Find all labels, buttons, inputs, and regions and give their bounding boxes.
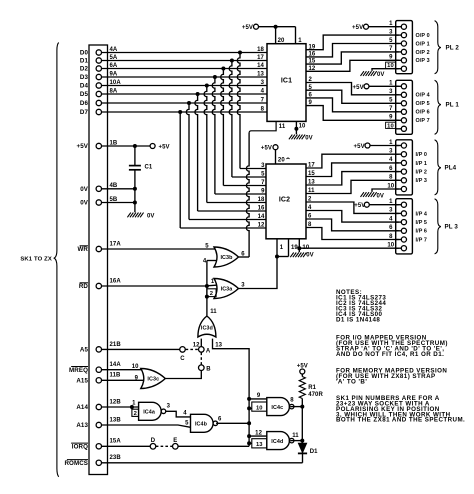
svg-text:11B: 11B bbox=[110, 373, 122, 379]
PL1 pin numbers bbox=[386, 81, 396, 130]
svg-text:PL 2: PL 2 bbox=[446, 44, 460, 51]
svg-text:9: 9 bbox=[261, 189, 265, 195]
svg-text:16: 16 bbox=[258, 206, 265, 212]
ground PL4 pin 10 bbox=[361, 189, 399, 199]
svg-text:3: 3 bbox=[167, 404, 171, 410]
brace PL 1 bbox=[435, 80, 460, 134]
capacitor C1 bbox=[129, 146, 153, 212]
svg-text:B: B bbox=[206, 366, 211, 372]
wire D6 (SK1 to IC1 and IC2) bbox=[80, 100, 267, 219]
wire D5 (SK1 8A to IC1 and IC2) bbox=[80, 88, 267, 211]
svg-text:IC3d: IC3d bbox=[201, 326, 213, 332]
svg-text:O/P 7: O/P 7 bbox=[416, 118, 430, 124]
wire D3 (SK1 9A to IC1 and IC2) bbox=[80, 71, 267, 194]
svg-text:11: 11 bbox=[279, 124, 286, 130]
svg-text:17A: 17A bbox=[110, 241, 122, 247]
wire D4 (SK1 10A to IC1 and IC2) bbox=[80, 80, 267, 203]
svg-text:7: 7 bbox=[261, 180, 265, 186]
svg-text:10: 10 bbox=[387, 243, 394, 249]
svg-text:3: 3 bbox=[241, 283, 245, 289]
node D bbox=[150, 438, 156, 449]
wire IC2 pin 2 to I/P 4 bbox=[306, 202, 399, 213]
wire IC2 pin 8 to I/P 7 bbox=[306, 228, 399, 240]
ground IC1 pin 10 bbox=[289, 121, 313, 141]
wire A15 11B to IC3c pin 9 bbox=[76, 373, 143, 385]
svg-text:IC4b: IC4b bbox=[195, 422, 208, 428]
IC U IC1 74LS273 bbox=[267, 44, 306, 122]
svg-text:A: A bbox=[206, 349, 211, 355]
svg-text:D: D bbox=[151, 438, 156, 444]
svg-text:I/P 3: I/P 3 bbox=[416, 178, 428, 184]
connector PL1 bbox=[396, 80, 413, 134]
connector SK1 edge connector bbox=[89, 45, 108, 475]
labels O/P 0-3 bbox=[416, 33, 430, 64]
wire IC4d output 11 bbox=[290, 439, 304, 443]
svg-text:C1: C1 bbox=[145, 164, 153, 170]
svg-text:0V: 0V bbox=[377, 72, 385, 78]
op-gate IC3b 74LS32 bbox=[203, 247, 245, 267]
IC1 +5V rail pins 20 and 1 bbox=[242, 24, 302, 44]
svg-text:I/P 1: I/P 1 bbox=[416, 161, 428, 167]
svg-text:4: 4 bbox=[183, 410, 187, 416]
IC1 right pin numbers bbox=[309, 44, 316, 106]
svg-text:O/P 5: O/P 5 bbox=[416, 101, 430, 107]
svg-text:470R: 470R bbox=[308, 392, 323, 398]
svg-text:6: 6 bbox=[241, 251, 245, 257]
svg-text:5: 5 bbox=[185, 421, 189, 427]
wire IC1 pin 9 to O/P 7 bbox=[306, 106, 399, 121]
node A bbox=[199, 347, 211, 355]
svg-text:12: 12 bbox=[255, 430, 262, 436]
svg-text:I/P 0: I/P 0 bbox=[416, 152, 428, 158]
svg-text:IC3b: IC3b bbox=[220, 255, 233, 261]
+5V terminal near C1 bbox=[150, 144, 170, 151]
svg-text:I/P 4: I/P 4 bbox=[416, 211, 428, 217]
svg-text:11: 11 bbox=[210, 309, 217, 315]
nand-gate IC4b 74LS00 bbox=[191, 414, 223, 432]
svg-text:16A: 16A bbox=[110, 278, 122, 284]
PL4 pin numbers bbox=[387, 140, 394, 190]
svg-text:O/P 1: O/P 1 bbox=[416, 41, 430, 47]
svg-text:+5V: +5V bbox=[77, 143, 89, 150]
IC4c pin 10 box bbox=[247, 402, 267, 411]
wire WR 17A to IC3b pin 5 bbox=[77, 241, 216, 253]
svg-text:21B: 21B bbox=[110, 342, 122, 348]
IC2 output enable pins 1 and 19 bbox=[275, 239, 298, 259]
wire IC4c output 8 bbox=[290, 405, 304, 409]
PL3 pin numbers bbox=[387, 199, 394, 249]
svg-text:SK1 TO ZX: SK1 TO ZX bbox=[20, 257, 52, 263]
wire RD 16A to IC3a pin 1 bbox=[79, 278, 216, 290]
svg-text:I/P 2: I/P 2 bbox=[416, 170, 428, 176]
strap A to B dashed bbox=[200, 353, 202, 365]
wire IC1 pin 12 to O/P 3 bbox=[306, 60, 399, 71]
notes text memory mapped version bbox=[336, 368, 447, 386]
nand-gate IC4a 74LS00 bbox=[139, 402, 171, 420]
wire R1 to D1 bbox=[301, 407, 303, 444]
svg-text:MREQ: MREQ bbox=[69, 367, 88, 374]
svg-text:8: 8 bbox=[290, 397, 294, 403]
svg-text:PL 3: PL 3 bbox=[445, 223, 459, 230]
svg-text:2: 2 bbox=[210, 291, 213, 297]
wire IC4b output to net bbox=[216, 421, 251, 425]
svg-text:4: 4 bbox=[389, 157, 393, 163]
svg-text:8: 8 bbox=[389, 175, 393, 181]
wire 0V 4B bbox=[80, 183, 137, 193]
svg-text:3: 3 bbox=[261, 163, 265, 169]
svg-text:IC4c: IC4c bbox=[271, 405, 283, 411]
wire IC1 pin 5 to O/P 5 bbox=[306, 90, 399, 103]
+5V terminal PL4 bbox=[354, 143, 399, 150]
wire 0V 5B bbox=[80, 197, 137, 207]
connector PL2 bbox=[396, 21, 413, 74]
svg-text:R1: R1 bbox=[308, 385, 316, 391]
svg-text:10: 10 bbox=[132, 364, 139, 370]
svg-text:IC2: IC2 bbox=[279, 197, 290, 204]
node C bbox=[180, 347, 186, 363]
nand-gate IC4d 74LS00 bbox=[267, 432, 300, 450]
svg-text:15A: 15A bbox=[110, 439, 122, 445]
svg-text:I/P 6: I/P 6 bbox=[416, 229, 428, 235]
svg-text:3: 3 bbox=[389, 89, 393, 95]
svg-text:1: 1 bbox=[298, 38, 302, 44]
svg-text:14A: 14A bbox=[110, 362, 122, 368]
svg-text:11: 11 bbox=[292, 433, 299, 439]
brace PL 2 bbox=[435, 21, 460, 74]
wire ROMCS 23B bbox=[64, 455, 302, 467]
svg-text:WR: WR bbox=[77, 246, 88, 253]
wire IC2 pin 6 to I/P 6 bbox=[306, 219, 399, 231]
notes text I/O mapped version bbox=[336, 335, 448, 358]
svg-text:2: 2 bbox=[134, 411, 137, 417]
wire A5 21B to strap C bbox=[80, 342, 180, 354]
svg-text:5: 5 bbox=[205, 244, 209, 250]
svg-text:IC3c: IC3c bbox=[147, 377, 159, 383]
svg-text:5: 5 bbox=[389, 38, 393, 44]
svg-text:9: 9 bbox=[389, 55, 393, 61]
svg-text:13: 13 bbox=[256, 442, 263, 448]
wire A13 13B to IC4b pin 5 bbox=[76, 417, 190, 429]
svg-text:D1: D1 bbox=[310, 449, 318, 455]
svg-text:0V: 0V bbox=[306, 252, 314, 258]
svg-text:0V: 0V bbox=[80, 186, 89, 193]
svg-text:13: 13 bbox=[257, 71, 264, 77]
svg-text:IORQ: IORQ bbox=[72, 444, 88, 451]
wire IC2 pin 4 to I/P 5 bbox=[306, 211, 399, 223]
svg-text:14: 14 bbox=[258, 214, 265, 220]
node E bbox=[173, 438, 179, 449]
svg-text:D7: D7 bbox=[80, 109, 89, 116]
svg-text:1: 1 bbox=[132, 401, 136, 407]
brace PL 3 bbox=[435, 199, 459, 254]
svg-text:1: 1 bbox=[280, 245, 284, 251]
svg-text:20: 20 bbox=[278, 38, 285, 44]
wire D0 (SK1 4A to IC1 and IC2) bbox=[80, 47, 267, 169]
svg-text:12B: 12B bbox=[110, 399, 122, 405]
svg-text:D0: D0 bbox=[80, 50, 89, 57]
svg-text:8: 8 bbox=[261, 106, 265, 112]
wire IC2 pin 11 to I/P 3 bbox=[306, 180, 399, 193]
svg-text:3: 3 bbox=[389, 208, 393, 214]
svg-text:D1 IS 1N4148: D1 IS 1N4148 bbox=[336, 316, 380, 323]
ground PL2 pin 10 bbox=[361, 69, 399, 79]
svg-text:14: 14 bbox=[257, 63, 264, 69]
ground IC2 pin 10 bbox=[290, 239, 398, 259]
wire strap E to IC4 net bbox=[178, 445, 249, 447]
svg-text:3: 3 bbox=[261, 80, 265, 86]
notes text SK1 pin numbers bbox=[336, 395, 465, 424]
svg-text:RD: RD bbox=[79, 283, 89, 290]
svg-text:9: 9 bbox=[135, 376, 139, 382]
svg-text:13B: 13B bbox=[110, 417, 122, 423]
wire A14 12B to IC4a bbox=[76, 399, 138, 411]
svg-text:18: 18 bbox=[257, 47, 264, 53]
svg-text:0V: 0V bbox=[147, 214, 155, 220]
svg-text:+5V: +5V bbox=[242, 25, 253, 31]
svg-text:A15: A15 bbox=[76, 378, 88, 385]
svg-text:+5V: +5V bbox=[297, 364, 308, 370]
labels I/P 4-7 bbox=[416, 211, 428, 243]
strap D to E dashed bbox=[156, 445, 173, 447]
IC2 right pin numbers bbox=[308, 163, 315, 229]
wire IC1 pin 19 to O/P 0 bbox=[306, 35, 399, 50]
wire IC1 pin 2 to O/P 4 bbox=[306, 83, 399, 95]
wire IC2 pin 15 to I/P 1 bbox=[306, 163, 399, 177]
IC2 +5V pin 20 bbox=[261, 145, 290, 164]
IC U IC2 74LS244 bbox=[266, 164, 306, 239]
svg-text:E: E bbox=[173, 438, 177, 444]
wire IC3d pin 12 to strap A bbox=[193, 339, 202, 349]
op-gate IC3d 74LS32 bbox=[198, 309, 217, 337]
svg-text:0V: 0V bbox=[80, 200, 89, 207]
svg-text:A13: A13 bbox=[76, 422, 88, 429]
svg-text:20: 20 bbox=[278, 157, 285, 163]
+5V terminal PL3 bbox=[354, 202, 398, 209]
op-gate IC3c 74LS32 bbox=[141, 369, 166, 389]
svg-text:+5V: +5V bbox=[354, 144, 365, 150]
connector PL4 bbox=[396, 140, 413, 195]
svg-text:10: 10 bbox=[387, 123, 394, 129]
wire +5V 1B bbox=[77, 140, 151, 150]
svg-text:9: 9 bbox=[257, 393, 261, 399]
PL2 pin numbers bbox=[386, 21, 396, 69]
svg-text:4: 4 bbox=[389, 216, 393, 222]
labels I/P 0-3 bbox=[416, 152, 428, 184]
svg-text:A5: A5 bbox=[80, 347, 89, 354]
brace PL4 bbox=[435, 140, 457, 195]
svg-text:+5V: +5V bbox=[352, 25, 363, 31]
svg-text:BOTH THE ZX81 AND THE SPECTRUM: BOTH THE ZX81 AND THE SPECTRUM. bbox=[336, 417, 465, 424]
svg-text:D4: D4 bbox=[80, 83, 89, 90]
wire IC4c pin 9 bbox=[247, 393, 267, 401]
node B bbox=[199, 365, 212, 372]
wire IC1 pin 16 to O/P 1 bbox=[306, 44, 399, 57]
wire D2 (SK1 6A to IC1 and IC2) bbox=[80, 63, 267, 186]
IC2 left pin numbers bbox=[258, 163, 265, 229]
svg-text:I/P 5: I/P 5 bbox=[416, 220, 428, 226]
svg-text:+5V: +5V bbox=[261, 146, 272, 152]
svg-text:+5V: +5V bbox=[159, 145, 170, 151]
label SK1 TO ZX with brace bbox=[20, 43, 58, 477]
notes text parts list bbox=[336, 289, 386, 323]
svg-text:D3: D3 bbox=[80, 74, 89, 81]
svg-text:5: 5 bbox=[261, 172, 265, 178]
wire IORQ 15A to strap D bbox=[71, 439, 150, 451]
connector PL3 bbox=[396, 199, 413, 254]
+5V terminal PL2 bbox=[352, 24, 399, 31]
svg-text:C: C bbox=[180, 356, 185, 362]
svg-text:IC1: IC1 bbox=[281, 77, 292, 84]
svg-text:13: 13 bbox=[215, 342, 222, 348]
svg-text:IC4d: IC4d bbox=[271, 439, 283, 445]
svg-text:0V: 0V bbox=[305, 136, 313, 142]
resistor R1 470R bbox=[297, 364, 324, 407]
svg-text:3: 3 bbox=[389, 149, 393, 155]
svg-text:D5: D5 bbox=[80, 91, 89, 98]
IC1 pin 11 clock wire to IC3b output bbox=[239, 121, 286, 257]
wire D7 (SK1 to IC1 and IC2) bbox=[80, 109, 267, 228]
svg-text:PL4: PL4 bbox=[445, 165, 457, 172]
svg-text:D2: D2 bbox=[80, 66, 89, 73]
svg-text:0V: 0V bbox=[377, 193, 385, 199]
wire IC4a output to IC4b pin 4 bbox=[166, 410, 191, 417]
svg-text:5: 5 bbox=[389, 98, 393, 104]
svg-text:3: 3 bbox=[389, 29, 393, 35]
wire IC3c output to strap B bbox=[166, 371, 202, 379]
svg-text:6: 6 bbox=[389, 225, 393, 231]
wire IC1 pin 6 to O/P 6 bbox=[306, 98, 399, 112]
diode D1 1N4148 bbox=[298, 443, 318, 463]
svg-text:10: 10 bbox=[256, 405, 263, 411]
svg-text:IC4a: IC4a bbox=[143, 410, 156, 416]
svg-text:4: 4 bbox=[261, 88, 265, 94]
svg-text:O/P 0: O/P 0 bbox=[416, 33, 430, 39]
svg-text:I/P 7: I/P 7 bbox=[416, 237, 428, 243]
svg-text:18: 18 bbox=[258, 197, 265, 203]
svg-text:7: 7 bbox=[389, 106, 393, 112]
svg-text:AND DO NOT FIT IC4, R1 OR D1.: AND DO NOT FIT IC4, R1 OR D1. bbox=[336, 351, 444, 358]
labels O/P 4-7 bbox=[416, 93, 430, 125]
IC1 left pin numbers bbox=[257, 47, 264, 113]
svg-text:IC3a: IC3a bbox=[221, 287, 234, 293]
nand-gate IC4c 74LS00 bbox=[267, 397, 295, 415]
+5V terminal PL1 bbox=[353, 84, 399, 91]
svg-text:O/P 3: O/P 3 bbox=[416, 58, 430, 64]
svg-text:6: 6 bbox=[389, 166, 393, 172]
svg-text:8: 8 bbox=[389, 234, 393, 240]
svg-text:12: 12 bbox=[258, 223, 265, 229]
svg-text:'A' TO 'B': 'A' TO 'B' bbox=[336, 379, 367, 386]
svg-text:O/P 4: O/P 4 bbox=[416, 93, 430, 99]
wire MREQ 14A to IC3c pin 10 bbox=[69, 362, 143, 374]
svg-text:7: 7 bbox=[261, 97, 265, 103]
wire IC3b pin 4 to node bbox=[206, 261, 208, 316]
IC3a pin 2 box bbox=[205, 289, 216, 299]
wire IC1 pin 15 to O/P 2 bbox=[306, 52, 399, 64]
op-gate IC3a 74LS32 bbox=[214, 279, 245, 299]
svg-text:23B: 23B bbox=[110, 455, 122, 461]
svg-text:+5V: +5V bbox=[353, 85, 364, 91]
wire IC3a output 3 to IC2 enable bbox=[239, 257, 277, 289]
wire D1 (SK1 5A to IC1 and IC2) bbox=[80, 55, 267, 177]
svg-text:6: 6 bbox=[218, 416, 222, 422]
svg-text:A14: A14 bbox=[76, 404, 88, 411]
svg-text:+5V: +5V bbox=[354, 203, 365, 209]
svg-text:D1: D1 bbox=[80, 58, 89, 65]
IC4d pin 13 box bbox=[247, 439, 267, 448]
svg-text:17: 17 bbox=[257, 55, 264, 61]
svg-text:9: 9 bbox=[389, 115, 393, 121]
svg-text:7: 7 bbox=[389, 46, 393, 52]
svg-text:ROMCS: ROMCS bbox=[64, 460, 88, 467]
strap C to A dashed bbox=[186, 348, 199, 350]
wire IC4d pin 12 bbox=[247, 430, 267, 438]
svg-text:PL 1: PL 1 bbox=[446, 101, 460, 108]
IC4a pin 2 box bbox=[132, 407, 139, 417]
svg-text:O/P 6: O/P 6 bbox=[416, 110, 430, 116]
wire IC3d pin 13 to IC4 net bbox=[213, 339, 250, 447]
wire IC2 pin 17 to I/P 0 bbox=[306, 154, 399, 168]
svg-text:10: 10 bbox=[299, 124, 306, 130]
svg-text:D6: D6 bbox=[80, 100, 89, 107]
wire IC2 pin 13 to I/P 2 bbox=[306, 172, 399, 185]
svg-text:O/P 2: O/P 2 bbox=[416, 50, 430, 56]
ground below C1 bbox=[127, 213, 154, 220]
